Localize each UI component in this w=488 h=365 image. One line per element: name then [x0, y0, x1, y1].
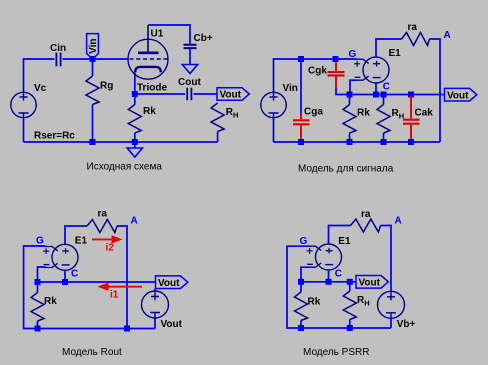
wire Rk rout bottom lead	[37, 321, 39, 329]
capacitor Cgk	[328, 61, 345, 88]
wire Cga upper lead	[300, 61, 302, 114]
resistor Rg	[86, 76, 99, 105]
wire bottom rail signal	[274, 141, 441, 143]
wire Cb+ to ground	[189, 49, 191, 65]
wire RH psrr bottom lead	[349, 320, 351, 329]
junction E1 rout out	[62, 279, 68, 285]
wire E1 psrr top lead	[329, 226, 351, 245]
wire anode to Cb+	[148, 25, 190, 44]
svg-text:Cga: Cga	[304, 107, 323, 118]
wire Vc top to Cin	[24, 59, 55, 93]
resistor RH psrr	[343, 291, 356, 320]
wire Rk2 top lead	[349, 96, 351, 105]
capacitor Cga	[293, 114, 310, 141]
wire RH to bottom rail	[217, 132, 219, 143]
resistor Rk rout	[31, 293, 44, 322]
wire G rout	[24, 246, 155, 329]
wire ra rout to A	[117, 226, 127, 329]
svg-text:i1: i1	[110, 290, 119, 301]
svg-text:C: C	[71, 269, 78, 280]
svg-text:Модель PSRR: Модель PSRR	[303, 347, 369, 358]
svg-text:E1: E1	[389, 48, 402, 59]
flag Vin	[87, 34, 99, 59]
junction Rk rout top	[35, 279, 41, 285]
wire Rk psrr top lead	[300, 283, 302, 292]
wire Vout src bottom lead	[154, 318, 156, 329]
wire Vin node down to Rg	[92, 61, 94, 76]
wire E1 rout bottom lead	[64, 270, 66, 282]
svg-text:Rser=Rc: Rser=Rc	[34, 130, 75, 141]
wire Rk rout top lead	[37, 284, 39, 293]
junction Cgk top	[333, 56, 339, 62]
svg-text:i2: i2	[106, 243, 115, 254]
svg-text:A: A	[395, 216, 402, 227]
wire C rail rout	[38, 281, 156, 283]
wire Vin2 to bottom	[273, 118, 275, 142]
svg-text:Vout: Vout	[447, 90, 469, 101]
junction Cgk bottom ctl	[347, 92, 353, 98]
capacitor Cout	[187, 88, 191, 101]
svg-text:Cin: Cin	[50, 43, 66, 54]
junction RH psrr top	[347, 279, 353, 285]
dependent source E1 signal	[354, 57, 389, 83]
svg-text:Triode: Triode	[137, 82, 167, 93]
svg-text:ra: ra	[408, 22, 418, 33]
resistor ra psrr	[351, 219, 381, 232]
wire Cin to Vin node	[63, 58, 93, 60]
wire ra psrr to A	[381, 226, 392, 292]
svg-text:Rk: Rk	[143, 106, 156, 117]
junction E1 psrr out	[326, 279, 332, 285]
capacitor Cak	[403, 96, 420, 139]
capacitor Cb+	[184, 45, 197, 48]
capacitor Cin	[56, 53, 60, 67]
voltage source Vout test	[142, 291, 169, 318]
wire G psrr	[287, 246, 391, 328]
flag Vout rout	[156, 276, 188, 289]
wire RH2 bottom lead	[383, 133, 385, 142]
junction RH psrr bottom	[347, 325, 353, 331]
svg-text:Rg: Rg	[100, 81, 113, 92]
flag Vout signal	[445, 88, 477, 101]
resistor ra signal	[402, 33, 430, 46]
voltage source Vin2	[261, 92, 286, 117]
wire C rail psrr	[301, 281, 356, 283]
wire grid to triode	[93, 58, 129, 60]
flag Vout output	[217, 88, 249, 101]
wire cathode node to Rk	[134, 96, 136, 105]
svg-text:Vout: Vout	[359, 278, 381, 289]
wire cathode to Cout	[135, 93, 185, 95]
wire Vc bottom to rail	[23, 118, 25, 143]
wire Cgk to cathode rail	[336, 88, 348, 95]
svg-text:Модель Rout: Модель Rout	[62, 347, 122, 358]
svg-text:Исходная схема: Исходная схема	[87, 162, 163, 173]
svg-text:U1: U1	[151, 29, 164, 40]
svg-text:Vin: Vin	[88, 39, 99, 54]
junction Cga bottom	[298, 139, 304, 145]
svg-text:Vb+: Vb+	[397, 319, 416, 330]
svg-text:Cout: Cout	[178, 77, 201, 88]
junction cathode node	[132, 91, 138, 97]
wire Rk2 bottom lead	[349, 133, 351, 142]
dependent source E1 psrr	[307, 244, 342, 270]
junction A rout bottom	[124, 326, 130, 332]
junction RH top sig	[381, 92, 387, 98]
svg-text:Vin: Vin	[283, 83, 298, 94]
resistor ra rout	[87, 220, 117, 233]
dependent source E1 rout	[43, 244, 78, 270]
wire E1 bottom lead	[375, 83, 377, 95]
svg-text:Vout: Vout	[220, 90, 242, 101]
wire RH psrr top lead	[349, 283, 351, 291]
current arrow i1	[98, 283, 143, 291]
wire bottom rail	[24, 141, 218, 143]
svg-text:E1: E1	[338, 236, 351, 247]
junction Vin node	[90, 56, 96, 62]
resistor Rk	[128, 105, 141, 134]
wire Rk to bottom rail	[134, 133, 136, 142]
wire E1 rout minus control	[38, 267, 46, 282]
wire ra to A corner	[430, 39, 441, 142]
wire E1 psrr bottom lead	[328, 270, 330, 282]
current arrow i2	[92, 235, 123, 243]
svg-text:Cak: Cak	[415, 107, 434, 118]
wire Cak bottom blue	[410, 139, 412, 143]
junction Rk psrr top	[298, 279, 304, 285]
junction Cga top	[298, 56, 304, 62]
resistor Rk signal	[343, 105, 356, 134]
svg-text:E1: E1	[75, 236, 88, 247]
wire Vout src top lead	[154, 289, 156, 292]
svg-text:C: C	[335, 269, 342, 280]
ground below Cb+	[182, 65, 197, 74]
junction Rk bottom	[132, 139, 138, 145]
wire E1 top lead	[376, 39, 402, 57]
svg-text:ra: ra	[98, 209, 108, 220]
wire ground stub	[134, 144, 136, 148]
wire top rail G net	[274, 59, 357, 92]
wire E1 minus control	[350, 80, 357, 94]
junction E1 out	[373, 92, 379, 98]
resistor RH signal	[377, 105, 390, 134]
wire Vb+ bottom lead	[390, 318, 392, 328]
wire E1 psrr minus control	[301, 267, 309, 282]
wire cathode rail	[348, 94, 445, 96]
wire RH2 top lead	[383, 96, 385, 105]
svg-text:A: A	[131, 216, 138, 227]
svg-text:G: G	[349, 49, 357, 60]
wire Rk psrr bottom lead	[300, 321, 302, 329]
svg-text:G: G	[36, 236, 44, 247]
svg-text:Rk: Rk	[44, 296, 57, 307]
wire Rg to bottom rail	[92, 105, 94, 143]
voltage source Vc	[11, 92, 36, 117]
junction Cak bottom	[408, 139, 414, 145]
wire E1 rout top lead	[65, 226, 87, 244]
junction RH2 bottom	[381, 139, 387, 145]
wire cathode down	[134, 79, 136, 94]
svg-text:ra: ra	[361, 209, 371, 220]
voltage source Vb+	[378, 291, 405, 318]
ground main	[127, 148, 142, 157]
svg-text:A: A	[444, 30, 451, 41]
resistor RH load	[211, 103, 224, 132]
svg-text:Rk: Rk	[308, 297, 321, 308]
svg-text:Cb+: Cb+	[194, 33, 213, 44]
junction Cak top	[408, 92, 414, 98]
svg-text:Vout: Vout	[158, 278, 180, 289]
svg-text:Cgk: Cgk	[308, 66, 327, 77]
svg-text:C: C	[383, 82, 390, 93]
svg-text:Модель для сигнала: Модель для сигнала	[298, 164, 394, 175]
flag Vout psrr	[356, 276, 388, 289]
resistor Rk psrr	[295, 292, 308, 321]
svg-text:Rk: Rk	[357, 107, 370, 118]
tube U1 Triode	[128, 25, 168, 80]
svg-text:Vc: Vc	[34, 83, 47, 94]
junction Rk2 bottom	[347, 139, 353, 145]
junction Rk psrr bottom	[298, 325, 304, 331]
wire Cout to Vout flag	[194, 93, 218, 95]
junction Rg bottom	[90, 139, 96, 145]
junction Rk rout bottom	[35, 326, 41, 332]
svg-text:Vout: Vout	[161, 319, 183, 330]
